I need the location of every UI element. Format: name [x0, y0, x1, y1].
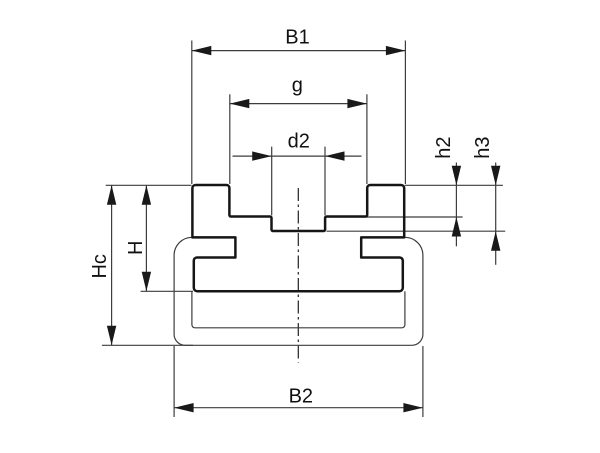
wire top-face extension line left: [106, 184, 192, 186]
svg-text:g: g: [292, 75, 303, 97]
arrow d2 left: [252, 151, 272, 160]
wire h2 dimension line: [455, 163, 457, 247]
svg-text:B2: B2: [289, 385, 313, 407]
wire B1 extension line left: [191, 41, 193, 185]
svg-text:B1: B1: [285, 26, 309, 48]
arrow g left: [230, 99, 250, 108]
wire B2 extension line right: [422, 346, 424, 417]
centerline axis: [297, 188, 299, 363]
arrow B2 right: [403, 403, 423, 412]
svg-text:Hc: Hc: [89, 254, 111, 278]
arrow B1 right: [386, 46, 406, 55]
arrow h3 top: [491, 166, 500, 186]
wire B2 extension line left: [173, 346, 175, 417]
wire H dimension line: [145, 185, 147, 291]
wire top-face extension line right: [405, 184, 503, 186]
wire Hc bottom extension line: [102, 344, 193, 346]
wire h2 shoulder extension line: [326, 216, 463, 218]
arrow h2 bottom: [452, 217, 461, 237]
wire B1 dimension line: [192, 50, 406, 52]
wire Hc dimension line: [111, 185, 113, 345]
arrow H top: [142, 185, 151, 205]
arrow H bottom: [142, 272, 151, 292]
outer support channel profile (thin outline): [174, 237, 423, 345]
svg-text:h3: h3: [472, 136, 494, 158]
wire g extension line left: [229, 94, 231, 184]
wire g extension line right: [366, 94, 368, 184]
guide profile outline (thick): [192, 185, 404, 291]
wire H bottom extension line: [141, 290, 193, 292]
inner wall of support channel (thin outline): [192, 291, 405, 328]
wire g dimension line: [230, 103, 367, 105]
arrow g right: [347, 99, 367, 108]
svg-text:d2: d2: [288, 130, 310, 152]
wire d2 dimension line: [233, 155, 362, 157]
svg-text:H: H: [125, 241, 147, 255]
wire d2 extension line left: [271, 147, 273, 216]
arrow B2 left: [174, 403, 194, 412]
arrow h2 top: [452, 166, 461, 186]
wire d2 extension line right: [324, 147, 326, 216]
wire B1 extension line right: [404, 41, 406, 185]
wire h3 floor extension line: [327, 230, 506, 232]
wire B2 dimension line: [174, 407, 423, 409]
arrow Hc bottom: [107, 326, 116, 346]
arrow h3 bottom: [491, 231, 500, 251]
wire h3 dimension line: [495, 163, 497, 265]
arrow d2 right: [325, 151, 345, 160]
arrow Hc top: [107, 185, 116, 205]
arrow B1 left: [192, 46, 212, 55]
svg-text:h2: h2: [433, 136, 455, 158]
